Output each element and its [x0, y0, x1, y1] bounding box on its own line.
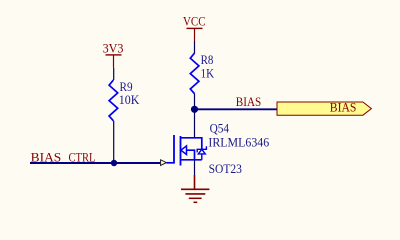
wire VCC to R8: [194, 41, 196, 53]
wire Q54 source to ground: [194, 160, 196, 175]
svg-text:10K: 10K: [119, 92, 140, 107]
power VCC: [183, 14, 206, 41]
pin arrow at Q54 gate: [161, 160, 167, 166]
gate bar: [173, 135, 175, 164]
body diode: [197, 146, 206, 152]
drain stub: [181, 138, 202, 150]
resistor R9: [109, 79, 140, 121]
svg-text:R8: R8: [201, 52, 214, 67]
power 3V3: [103, 40, 124, 67]
channel bar: [180, 136, 182, 166]
svg-text:BIAS: BIAS: [330, 100, 357, 115]
body arrow: [181, 146, 187, 155]
wire R8 to junction: [194, 94, 196, 110]
ground: [181, 175, 209, 202]
svg-text:SOT23: SOT23: [209, 161, 242, 176]
node junction R8/drain: [191, 106, 198, 113]
svg-text:1K: 1K: [201, 66, 215, 81]
transistor Q54: [174, 121, 270, 176]
wire R9 to BIAS_CTRL net: [113, 121, 115, 163]
port BIAS: [277, 100, 371, 116]
resistor R8: [190, 52, 214, 94]
wire junction to port BIAS: [195, 108, 278, 110]
svg-text:BIAS: BIAS: [236, 94, 261, 109]
wire junction to Q54 drain: [194, 109, 196, 138]
svg-text:VCC: VCC: [183, 14, 206, 29]
wire BIAS_CTRL: [30, 162, 160, 164]
pin Q54 gate: [166, 162, 174, 164]
node junction BIAS_CTRL/R9: [111, 160, 117, 166]
svg-text:Q54: Q54: [210, 121, 230, 136]
body stub: [187, 150, 195, 160]
wire 3V3 to R9: [113, 68, 115, 80]
svg-text:IRLML6346: IRLML6346: [208, 134, 269, 149]
svg-text:3V3: 3V3: [103, 40, 124, 55]
source stub: [181, 159, 202, 161]
